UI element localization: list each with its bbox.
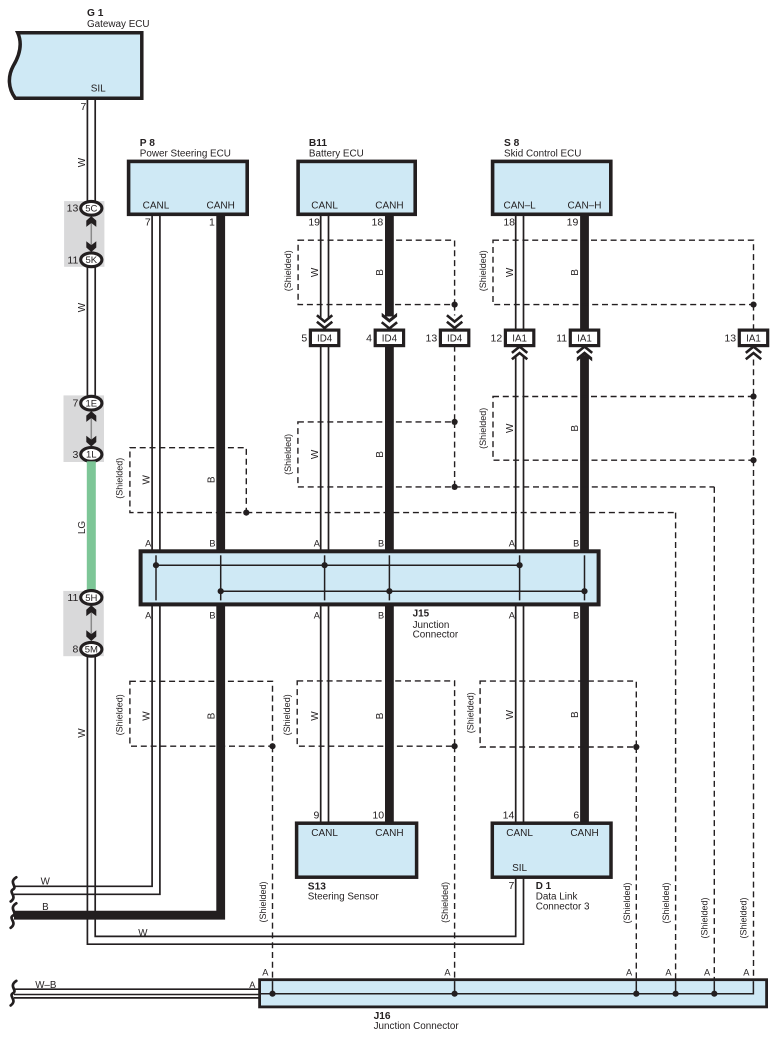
svg-text:13: 13 [426,332,438,344]
svg-text:B: B [570,711,581,718]
connector IA1 pin 11 [556,330,599,346]
svg-text:Gateway ECU: Gateway ECU [87,19,150,30]
wire LG from 1L to 5H [87,461,96,591]
svg-text:CAN–H: CAN–H [568,201,602,212]
shield junction dot B11 [452,302,458,308]
shield drain dashed from IA1 box down to J16 [753,460,755,980]
connector ID4 pin 5 [301,330,338,346]
shield box centre pair [297,681,454,746]
shield junction dot [269,743,275,749]
inter-connector arrows 1E-1L [90,414,92,443]
svg-text:12: 12 [491,332,503,344]
svg-text:(Shielded): (Shielded) [478,408,488,449]
svg-text:A: A [145,611,152,621]
J15 CANH bus junction dots [218,588,588,594]
J16 pin letters A [262,967,750,977]
J16 internal stub wires [273,981,715,994]
svg-text:W: W [138,928,148,939]
svg-text:7: 7 [80,101,86,113]
svg-text:5K: 5K [85,255,97,266]
svg-text:W: W [505,709,516,719]
shield drain dashed wire to 13 ID4 [454,305,456,316]
svg-text:5H: 5H [85,593,97,604]
wire break symbol W-B [11,981,17,1006]
shield junction dot lower [452,484,458,490]
svg-text:B: B [378,611,384,621]
wire B B11 CANH to connector ID4 [385,214,394,316]
svg-text:P 8: P 8 [140,138,155,149]
svg-text:A: A [314,611,321,621]
wire B J15-B to left edge (turns left) [14,604,221,915]
S13 title [308,881,380,902]
svg-text:G 1: G 1 [87,8,104,19]
shield dashed wire 13 IA1 to box [753,360,755,397]
svg-text:CANH: CANH [375,201,403,212]
svg-text:W: W [310,449,321,459]
svg-text:Skid Control ECU: Skid Control ECU [504,149,581,160]
svg-text:11: 11 [67,592,78,604]
J15 CANL bus bar [156,564,520,566]
svg-text:9: 9 [313,810,319,822]
svg-text:Battery ECU: Battery ECU [309,149,364,160]
svg-text:B: B [375,269,386,276]
arrow into 13 ID4 [447,315,462,321]
svg-text:CANL: CANL [143,201,170,212]
wire B S8 CAN-H to connector IA1 [580,214,589,330]
wire W S8 CAN-L to connector IA1 [516,214,524,330]
svg-text:CAN–L: CAN–L [503,201,536,212]
wire W from 5K to 1E [87,267,95,396]
shield drain dashed from ID4 box right to J16 column [455,486,715,488]
wire W from 5M down and right to D1 pin7 (SIL link) [87,656,523,944]
svg-text:SIL: SIL [91,84,106,95]
svg-text:B: B [375,712,386,719]
ECU G1 Gateway ECU box [9,8,149,98]
arrow into 13 IA1 [746,347,761,353]
svg-text:CANL: CANL [506,828,533,839]
svg-text:W: W [77,728,88,738]
svg-text:(Shielded): (Shielded) [478,250,488,291]
shield box below IA1 connectors [493,397,754,461]
svg-text:A: A [509,539,516,549]
arrow into 4 ID4 (solid) [382,313,397,323]
connector pair 5H/5M block [63,591,104,656]
shield box left pair [130,681,273,746]
svg-text:5: 5 [301,332,307,344]
svg-text:13: 13 [67,203,79,215]
svg-text:ID4: ID4 [447,333,463,344]
svg-text:S13: S13 [308,881,326,892]
svg-text:W: W [142,711,153,721]
svg-text:B: B [573,539,579,549]
svg-text:W: W [310,711,321,721]
svg-text:(Shielded): (Shielded) [661,882,671,923]
connector D1 Data Link Connector 3 box [492,823,611,877]
svg-text:(Shielded): (Shielded) [440,882,450,923]
svg-text:W: W [505,267,516,277]
ECU B11 Battery ECU box [298,138,415,214]
svg-text:B: B [378,539,384,549]
svg-text:B: B [570,425,581,432]
svg-text:A: A [145,539,152,549]
svg-text:W: W [77,157,88,167]
shield drain dashed centre to J16 [454,746,456,980]
svg-text:Connector 3: Connector 3 [536,902,590,913]
shield junction dot P8 [243,509,249,515]
svg-text:A: A [444,967,451,977]
svg-text:ID4: ID4 [382,333,398,344]
svg-text:(Shielded): (Shielded) [115,694,125,735]
svg-text:IA1: IA1 [746,333,761,344]
svg-text:(Shielded): (Shielded) [283,250,293,291]
connector 5C [81,201,102,215]
svg-text:Junction Connector: Junction Connector [374,1021,460,1032]
svg-text:W: W [77,302,88,312]
J15 CANH bus bar [221,590,585,592]
wire W from G1 pin7 to connector 5C [87,100,95,202]
svg-text:(Shielded): (Shielded) [282,694,292,735]
svg-text:7: 7 [72,398,78,410]
connector 1E [81,396,102,410]
svg-text:A: A [626,967,633,977]
svg-text:1L: 1L [86,450,97,461]
svg-text:A: A [743,967,750,977]
svg-text:B: B [209,539,215,549]
svg-text:IA1: IA1 [512,333,527,344]
svg-text:(Shielded): (Shielded) [466,692,476,733]
shield box below ID4 connectors [298,422,455,487]
junction connector J16 box [260,980,767,1007]
shield drain dashed left to J16 [272,746,274,980]
J15 CANL bus junction dots [153,562,523,568]
wire break symbol W [11,877,17,901]
connector 5M [81,642,102,656]
svg-text:3: 3 [72,449,78,461]
connector 1L [81,448,102,462]
svg-text:CANL: CANL [311,828,338,839]
svg-text:10: 10 [372,810,384,822]
svg-text:B: B [206,712,217,719]
svg-text:B: B [573,611,579,621]
svg-text:W: W [41,876,51,887]
shield drain dashed from P8 box right to J16 column [246,512,675,514]
svg-text:CANH: CANH [375,828,403,839]
wire W B11 CANL to connector ID4 [321,214,329,318]
svg-text:(Shielded): (Shielded) [258,881,268,922]
svg-text:7: 7 [508,880,514,892]
shield junction dot [633,744,639,750]
wire B J15-B to D1 CANH [580,604,589,823]
shield junction dot upper [750,393,756,399]
svg-text:CANL: CANL [311,201,338,212]
svg-text:A: A [509,611,516,621]
svg-text:19: 19 [308,217,320,229]
J16 bus bar [261,981,753,994]
arrow into 11 IA1 (solid) [577,347,592,353]
wire B from 11 IA1 to J15 [580,355,589,551]
wire B from 4 ID4 to J15 [385,346,394,552]
connector pair 5C/5K block [64,201,104,267]
wire W J15-A to left edge (turns left) [14,604,160,894]
shield junction dot lower [750,457,756,463]
wire W J15-A to S13 CANL [321,604,329,823]
wire W P8 CANL to J15 [152,214,160,551]
J15 internal pass-through wires [156,555,585,600]
J15 title [413,609,459,641]
connector IA1 pin 13 [724,330,767,346]
shield dashed wire 13 ID4 to box [454,346,456,422]
svg-text:19: 19 [567,217,579,229]
svg-text:ID4: ID4 [317,333,333,344]
svg-text:LG: LG [77,521,88,535]
svg-text:(Shielded): (Shielded) [283,434,293,475]
svg-text:B11: B11 [309,138,327,149]
connector ID4 pin 4 [366,330,403,346]
svg-text:1: 1 [209,217,215,229]
svg-text:18: 18 [372,217,384,229]
shield box right pair [480,681,636,747]
svg-text:B: B [206,476,217,483]
J15 pin letters A/B [145,539,579,621]
inter-connector arrows 5C-5K [90,219,92,249]
svg-text:A: A [262,967,269,977]
svg-text:11: 11 [556,332,567,344]
arrow into 12 IA1 [512,347,527,353]
svg-text:11: 11 [67,254,78,266]
shield box around S8 CAN wires [493,240,754,304]
svg-text:5M: 5M [85,645,98,656]
svg-text:(Shielded): (Shielded) [622,882,632,923]
svg-text:B: B [375,451,386,458]
svg-text:D 1: D 1 [536,881,552,892]
svg-text:18: 18 [503,217,515,229]
svg-text:A: A [665,967,672,977]
svg-text:Connector: Connector [413,630,459,641]
svg-text:7: 7 [145,217,151,229]
J16 title [374,1011,460,1032]
connector ID4 pin 13 [426,330,469,346]
wire W from 5 ID4 to J15 [321,346,329,552]
D1 title [536,881,590,913]
svg-text:Steering Sensor: Steering Sensor [308,892,380,903]
svg-text:13: 13 [724,332,736,344]
svg-text:W: W [310,267,321,277]
sensor S13 Steering Sensor box [297,823,417,877]
svg-text:SIL: SIL [512,863,527,874]
shield drain dashed right to J16 [635,747,637,980]
svg-text:CANH: CANH [207,201,235,212]
wire B J15-B to S13 CANH [385,604,394,823]
svg-text:CANH: CANH [570,828,598,839]
shield box around P8 CAN wires [130,448,246,513]
wire W J15-A to D1 CANL [516,604,524,823]
svg-text:A: A [704,967,711,977]
svg-text:(Shielded): (Shielded) [700,897,710,938]
svg-text:4: 4 [366,332,372,344]
svg-text:S 8: S 8 [504,138,520,149]
shield junction dot S8 [750,302,756,308]
connector IA1 pin 12 [491,330,534,346]
inter-connector arrows 5H-5M [90,608,92,638]
connector pair 1E/1L block [64,395,105,462]
ECU S8 Skid Control ECU box [493,138,611,214]
svg-text:6: 6 [573,810,579,822]
shield junction dot upper [452,419,458,425]
svg-text:14: 14 [503,810,515,822]
svg-text:A: A [249,980,256,990]
svg-text:8: 8 [72,644,78,656]
shield box around B11 CAN wires [298,240,455,304]
wire B P8 CANH to J15 [216,214,225,551]
arrow into 5 ID4 [317,315,332,321]
svg-text:J15: J15 [413,609,430,620]
junction connector J15 box [141,551,599,604]
svg-text:Power Steering ECU: Power Steering ECU [140,149,231,160]
svg-text:(Shielded): (Shielded) [739,897,749,938]
svg-text:A: A [314,539,321,549]
wire W-B to J16 [14,989,260,998]
shield junction dot [452,743,458,749]
shield drain dashed wire to 13 IA1 [753,305,755,331]
ECU P8 Power Steering ECU box [129,138,248,214]
svg-text:W: W [142,475,153,485]
svg-text:B: B [570,269,581,276]
connector 5K [81,253,102,267]
svg-text:W: W [505,423,516,433]
svg-text:(Shielded): (Shielded) [115,458,125,499]
svg-text:1E: 1E [85,399,97,410]
wire break symbol B [11,903,17,928]
svg-text:B: B [209,611,215,621]
wire W from 12 IA1 to J15 [516,357,524,552]
svg-text:5C: 5C [85,204,97,215]
svg-text:IA1: IA1 [577,333,592,344]
J16 bus junction dots [269,991,717,997]
connector 5H [81,591,102,605]
svg-text:B: B [42,902,49,913]
